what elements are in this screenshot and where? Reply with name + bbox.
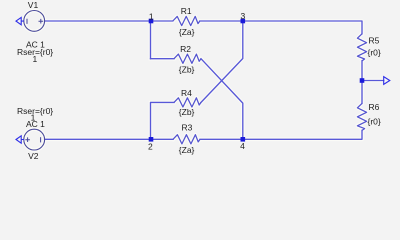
svg-text:{Za}: {Za} [179,145,195,155]
svg-text:3: 3 [240,11,245,21]
svg-text:{Zb}: {Zb} [179,65,195,75]
node 1 junction dot [149,19,154,24]
resistor R4 body [174,98,201,107]
resistor R2 body [174,54,201,63]
svg-text:R3: R3 [182,123,193,133]
wire R2 row lead [151,58,175,60]
svg-text:R1: R1 [181,6,192,16]
svg-text:2: 2 [148,141,153,151]
svg-text:R5: R5 [369,36,380,46]
wire bottom rail right (R3 to right corner) [200,130,362,139]
wire R4 row lead [151,102,175,139]
voltage source V1 [16,11,45,32]
svg-text:1: 1 [149,12,154,22]
output port arrow [384,77,390,85]
wire R2 diagonal to node4 [201,59,243,140]
svg-text:4: 4 [240,141,245,151]
svg-text:R4: R4 [181,88,192,98]
resistor R6 body [357,103,366,130]
node 4 junction dot [241,137,246,142]
node 3 junction dot [241,19,246,24]
wire bottom rail left (V2 to R3) [45,138,173,140]
svg-text:AC 1: AC 1 [26,119,45,129]
svg-text:{r0}: {r0} [368,117,381,127]
svg-text:{Zb}: {Zb} [179,107,195,117]
svg-text:{Za}: {Za} [179,27,195,37]
resistor R3 body [173,135,200,144]
svg-text:1: 1 [33,54,38,64]
resistor R1 body [173,16,200,25]
svg-text:V1: V1 [28,0,39,10]
wire node1 vertical [150,21,152,59]
svg-text:R6: R6 [369,102,380,112]
wire halo layer [24,11,384,151]
node 2 junction dot [149,137,154,142]
output junction dot [360,78,365,83]
voltage source V2 [16,129,45,150]
wire output stub [362,80,384,82]
wire top rail left (V1 to R1) [45,20,173,22]
resistor R5 body [357,34,366,61]
svg-text:R2: R2 [180,44,191,54]
wire top rail right (R1 to right corner) [200,21,362,34]
svg-text:{r0}: {r0} [368,47,381,57]
svg-text:V2: V2 [28,151,39,161]
wire node3 vertical and diagonal to R4 [201,21,243,102]
wire right rail between R5 and R6 [361,61,363,104]
